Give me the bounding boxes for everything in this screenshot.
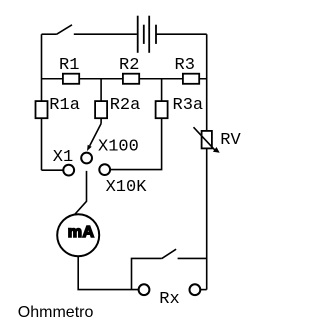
wire right rail bottom to Rx right terminal [200, 289, 206, 291]
selector wiper arm from R2a with arrowhead [90, 123, 102, 145]
svg-text:Rx: Rx [159, 290, 179, 309]
wire column 3 (under R2-R3 junction) down to X10K [110, 79, 162, 170]
svg-text:R1: R1 [59, 56, 79, 75]
wire switch contact to battery [74, 33, 137, 35]
wire top-left horizontal to switch pivot [42, 33, 57, 35]
wire meter pole up to X100 [74, 171, 86, 215]
svg-text:mA: mA [68, 224, 95, 241]
svg-text:X1: X1 [53, 148, 73, 167]
switch S1 blade (top-left) [56, 25, 72, 35]
switch S2 blade (bottom) [162, 249, 176, 258]
svg-text:X10K: X10K [106, 178, 148, 197]
svg-text:R2: R2 [119, 56, 139, 75]
contact X1 [42, 169, 64, 171]
svg-text:R3a: R3a [173, 96, 204, 115]
svg-text:X100: X100 [98, 138, 139, 157]
resistor R1 [63, 74, 79, 84]
resistor R1a [36, 101, 48, 118]
potentiometer RV [202, 131, 212, 149]
battery B1 [138, 16, 156, 53]
resistor R2a [95, 101, 107, 118]
wire branch up to bottom switch [132, 258, 162, 289]
svg-text:R3: R3 [175, 56, 195, 75]
svg-text:R2a: R2a [110, 96, 141, 115]
wire column 2 (under R1-R2 junction) [100, 79, 102, 124]
svg-text:Ohmmetro: Ohmmetro [18, 304, 94, 321]
wire bottom switch contact to right rail [178, 257, 207, 259]
wire meter bottom to Rx left terminal [78, 256, 138, 289]
wire battery to right rail [156, 33, 207, 35]
milliammeter mA [57, 214, 99, 256]
wire resistor row [42, 78, 207, 80]
wire right rail [206, 34, 208, 289]
wire left rail [41, 34, 43, 170]
resistor R3a [156, 101, 168, 118]
terminal Rx left [139, 284, 150, 295]
resistor R3 [183, 74, 199, 84]
terminal Rx right [190, 284, 201, 295]
resistor R2 [123, 74, 139, 84]
svg-text:RV: RV [220, 131, 241, 150]
contact X100 [81, 153, 92, 164]
contact X10K [99, 164, 110, 175]
svg-text:R1a: R1a [49, 96, 80, 115]
